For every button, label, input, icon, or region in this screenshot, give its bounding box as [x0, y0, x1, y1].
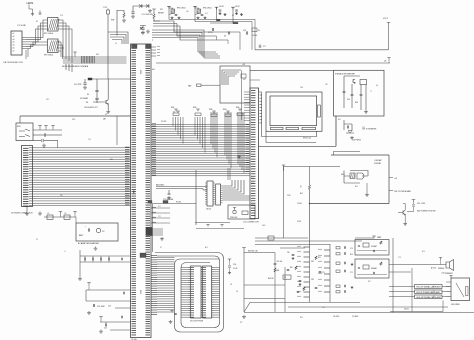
dcdc box top nested corner [334, 152, 361, 156]
svg-text:R51: R51 [318, 257, 321, 259]
wire label left of loop [140, 253, 146, 258]
LCD button bar 2 [286, 127, 299, 129]
svg-text:R30: R30 [355, 102, 358, 104]
cap C20 with label [93, 304, 94, 307]
analog left extra part 1 [287, 269, 290, 270]
analog left part d [297, 291, 300, 292]
loop wires turn right [198, 52, 220, 58]
svg-text:R10: R10 [300, 193, 303, 195]
svg-text:R74: R74 [422, 251, 425, 253]
wires BA lines into U3 [156, 187, 207, 191]
pullup drops group4 [224, 112, 226, 155]
U6 pin columns [201, 267, 203, 269]
vcc tap between fuses [59, 212, 63, 214]
ROM U6 [203, 266, 212, 318]
docking connector CN2 [22, 146, 33, 207]
wire drop from y116 [116, 116, 118, 145]
gate array U1 box [131, 44, 152, 338]
cap C13 ground cluster [168, 190, 170, 193]
docking bus right labels [125, 146, 130, 148]
long rail y307 [288, 306, 448, 308]
svg-text:VBAT: VBAT [377, 236, 381, 239]
svg-text:RP4 10KX4: RP4 10KX4 [203, 8, 211, 10]
codec stub ticks left x309 [304, 246, 310, 248]
nested corner loops in control box [222, 70, 241, 85]
mini header CN4 [146, 228, 152, 236]
IC U4 dip [216, 184, 221, 205]
svg-text:R70: R70 [350, 254, 353, 256]
caps row3 [105, 324, 106, 327]
IC U3 dip [207, 181, 213, 206]
vertical feed to CN3 from rail y70 [241, 70, 243, 120]
transistor Q3 [403, 210, 405, 215]
svg-text:14.318: 14.318 [252, 35, 257, 37]
svg-text:DET: DET [243, 79, 246, 81]
clock components mid [212, 28, 213, 31]
svg-text:R40: R40 [355, 186, 358, 188]
U7 parts [363, 243, 369, 247]
ground C14 [228, 271, 231, 274]
svg-text:F1: F1 [48, 213, 50, 215]
stub ticks U1 right top [152, 30, 153, 40]
inverter box [334, 70, 385, 116]
wire from LEDS [29, 5, 33, 13]
codec stub ticks left x330 [324, 249, 330, 251]
analog row comp 5 [336, 285, 340, 287]
pad component PD1 [197, 84, 202, 86]
FDD connector pins [446, 281, 451, 283]
FDD connector key rect [466, 287, 469, 296]
inverter ground [364, 110, 368, 113]
svg-text:VCC1: VCC1 [383, 18, 388, 20]
svg-text:KB OR MOUSE CON: KB OR MOUSE CON [4, 62, 24, 64]
svg-text:RP3 10KX4: RP3 10KX4 [177, 8, 185, 10]
control box right of U1 [220, 66, 250, 103]
svg-text:C51: C51 [322, 272, 325, 274]
CN2 pin labels [23, 147, 29, 149]
vcc tap mid [282, 165, 286, 167]
svg-text:C23: C23 [108, 306, 111, 308]
svg-text:DOCKING CONNECTOR: DOCKING CONNECTOR [11, 213, 33, 215]
analog row comp 2 [336, 253, 340, 255]
wire drop to docking bus [57, 141, 59, 148]
cap and grounds RP4 [201, 14, 204, 15]
svg-text:GA1: GA1 [132, 190, 135, 195]
pullup drops group5 [237, 112, 239, 164]
vcc ROM [228, 259, 232, 261]
wire y166 long [284, 166, 341, 168]
vcc in led box [233, 208, 236, 210]
svg-text:0.1UF: 0.1UF [233, 268, 237, 270]
svg-text:C73: C73 [398, 257, 401, 259]
svg-text:R72: R72 [368, 281, 371, 283]
Q1 collector to rail [107, 79, 109, 100]
upper rail short cluster4 [210, 22, 233, 24]
vcc taps on switch wires [33, 129, 62, 131]
capacitor C3 above U1 [140, 26, 146, 28]
staircase bus wires from U1 [153, 21, 180, 26]
svg-text:x5: x5 [13, 45, 15, 47]
U1 left pin name column [132, 45, 137, 47]
svg-text:488: 488 [103, 119, 106, 121]
cable bar 1 [415, 285, 443, 289]
wire top zone y248 [280, 247, 305, 249]
svg-text:C56: C56 [322, 307, 325, 309]
ground CN4 [160, 237, 164, 240]
wire under LCD 2 [266, 131, 316, 142]
svg-text:STN LCD: STN LCD [303, 138, 312, 140]
RTC resistor R62 [274, 268, 276, 272]
CN4 stubs [152, 228, 163, 230]
svg-text:AC ADAPTER/CHARGER: AC ADAPTER/CHARGER [78, 242, 100, 245]
svg-text:C8 R9: C8 R9 [235, 6, 240, 8]
bus loop spiral inner [157, 256, 220, 328]
U1 top-left pin label blob [132, 45, 138, 49]
vcc tap power chain [87, 283, 91, 285]
svg-text:R50: R50 [290, 267, 293, 269]
cap on rail y49.8 [259, 46, 262, 47]
small rect in control box [241, 74, 246, 78]
caps at U1 left edge [121, 258, 122, 261]
svg-text:C9: C9 [115, 43, 117, 45]
U1 top-right pin label blob [146, 45, 152, 49]
ROM U5 [191, 266, 202, 318]
bend of staircase to H rail [240, 19, 255, 50]
wires CN1 drop to bus [26, 49, 28, 60]
analog rail y238 [255, 237, 308, 239]
svg-text:C71: C71 [350, 272, 353, 274]
RTC top rail [244, 252, 275, 254]
wires CN1 to RP1 upper [26, 20, 48, 44]
analog left extra part 2 [303, 287, 305, 291]
diode D5 [346, 131, 354, 134]
svg-text:C50: C50 [287, 252, 290, 254]
fuse F1 [47, 215, 53, 219]
svg-text:J2: J2 [433, 286, 435, 288]
svg-text:C41 4.7UF: C41 4.7UF [417, 203, 425, 205]
staircase from U4 to bus [223, 180, 245, 194]
svg-text:10K: 10K [186, 11, 189, 13]
ground mid chain [87, 311, 91, 315]
pullup cluster RP4 [193, 6, 197, 8]
vcc taps below [206, 225, 209, 227]
svg-text:OP1: OP1 [311, 261, 314, 263]
svg-text:R62: R62 [277, 270, 280, 272]
cap and grounds RP3 [175, 14, 178, 15]
transistor Q1 [106, 100, 108, 105]
svg-text:C16: C16 [88, 139, 91, 141]
cap C10 right of staircase [246, 31, 247, 34]
FDD connector diagonal [456, 283, 464, 297]
reset resistor R3 [152, 9, 156, 11]
pullup cluster C6 junction [215, 7, 219, 9]
wires bars to connector [442, 286, 450, 288]
svg-text:X3: X3 [87, 94, 89, 96]
inverter transistor Q2 [353, 79, 355, 83]
ground below LEDS wire [31, 13, 34, 16]
svg-text:SW2: SW2 [72, 119, 75, 121]
LCD side bar [318, 105, 321, 117]
vertical x393 [392, 238, 394, 313]
cap C11 with ground [84, 79, 86, 83]
resistor R10 vertical [309, 167, 311, 186]
RTC vertical right [284, 267, 286, 312]
RTC funnel diagonal [244, 303, 250, 313]
dcdc pin stub 2 [389, 190, 393, 192]
svg-text:RP2 10Kx4: RP2 10Kx4 [44, 55, 53, 57]
svg-text:R5: R5 [36, 21, 38, 23]
vcc tap after F2 [73, 212, 77, 214]
svg-text:LOW BAT: LOW BAT [374, 159, 381, 162]
RTC rail y298.5 [244, 298, 285, 300]
inverter caps [343, 91, 346, 92]
svg-text:LCD PWR B: LCD PWR B [352, 140, 361, 142]
AC adapter box [76, 223, 118, 241]
svg-text:X4: X4 [284, 277, 286, 279]
svg-text:C20 10UF: C20 10UF [97, 306, 105, 308]
bus lines loop to U5 [181, 267, 189, 269]
crystal X3 [95, 90, 98, 91]
svg-text:PU PU: PU PU [161, 121, 167, 123]
resistor pack RP1 [48, 18, 59, 32]
pullup drops group1 [172, 117, 174, 126]
pullup cluster C8 junction [231, 7, 235, 9]
battery circle [96, 228, 100, 232]
svg-text:C24: C24 [104, 328, 107, 330]
wire power rail y217 [44, 216, 76, 218]
svg-text:R31: R31 [338, 119, 341, 121]
U8 parts [363, 265, 369, 269]
svg-text:SPINDLE: SPINDLE [438, 268, 444, 270]
analog rail y241 [255, 240, 362, 242]
vcc tap on bus [73, 52, 77, 54]
RTC rail y285 [244, 284, 285, 286]
wire horizontal y79 [88, 78, 131, 80]
wire long under LCD y146 [259, 145, 337, 147]
wire down to ground [79, 250, 81, 277]
analog rail y244.5 [255, 244, 330, 246]
power led box [228, 205, 255, 219]
svg-text:C1 10UF: C1 10UF [17, 25, 26, 27]
analog left part a [292, 254, 295, 255]
bus U6 to right column [214, 267, 220, 269]
wire LCD leftside vertical [259, 92, 262, 137]
wire J1 down [107, 14, 109, 79]
wire y228.5 [196, 228, 244, 230]
wires below led box y222 [195, 222, 230, 224]
svg-text:10S: 10S [251, 183, 254, 185]
svg-text:R63 1M: R63 1M [268, 278, 274, 280]
RTC cap C61 [274, 263, 277, 264]
ground Q3 [403, 222, 407, 225]
vertical x412 [411, 268, 413, 312]
audio amp box U7 [355, 240, 389, 256]
wire left x152 down [152, 204, 154, 253]
rail y311.5 right [390, 301, 443, 312]
wire vertical to reset cluster [116, 10, 118, 36]
switch wire 3 with cap [33, 140, 41, 142]
speaker SP1 [446, 260, 454, 271]
RTC funnel top rail [250, 302, 292, 304]
wires around comparator [344, 171, 368, 184]
dcdc box right [388, 155, 390, 204]
wire H rail y63 [156, 62, 390, 64]
resnet RN5 top [238, 109, 242, 111]
svg-text:D4: D4 [224, 36, 226, 38]
U1 right stubs y47-56 [151, 46, 156, 48]
upper rail from RP3 [169, 18, 250, 20]
regulator wires [86, 289, 131, 291]
svg-text:C10: C10 [243, 30, 246, 32]
svg-text:VL82: VL82 [139, 290, 141, 294]
resnet RN2 top [196, 109, 200, 111]
LCD button bar 1 [271, 127, 284, 129]
wire horizontal y116 main [20, 115, 131, 117]
vcc cap cluster left of U5 [170, 311, 173, 313]
ground under switch wires [42, 144, 46, 148]
svg-text:SW1: SW1 [17, 126, 21, 128]
analog left part c [299, 280, 302, 281]
Q1 emitter to ground [107, 104, 109, 110]
svg-text:C13 RESUME: C13 RESUME [163, 199, 173, 201]
resnet RN1 top [174, 109, 178, 111]
junction blob cluster4 [233, 22, 238, 23]
bus right name labels [246, 124, 250, 126]
CN2 bottom stub [26, 207, 28, 213]
pullup cluster RP3 [167, 6, 171, 8]
LCD connector CN3 [250, 88, 259, 219]
svg-text:R60 R61 C60: R60 R61 C60 [248, 251, 258, 253]
ground for diodes [148, 9, 152, 13]
RTC ground [242, 315, 246, 319]
svg-text:LCD CONNECTOR: LCD CONNECTOR [243, 222, 259, 224]
resnet RN3 top [212, 111, 216, 113]
svg-text:RESET: RESET [158, 13, 165, 15]
inverter internal wires [344, 76, 366, 110]
ground lcd power [350, 136, 354, 139]
wires RP2 outputs right [58, 42, 64, 59]
bus lines to loop left [157, 257, 175, 259]
nested wires U1 top right loops [153, 30, 204, 58]
comparator U2 shape [357, 173, 364, 179]
svg-text:+12V: +12V [441, 273, 445, 275]
docking bus wires [33, 147, 131, 149]
upper rail from RP4 [195, 21, 245, 23]
bus loop spiral outer [155, 253, 224, 333]
junction blob cluster3 [217, 20, 221, 21]
pullup drops group2 [194, 117, 196, 135]
FDD connector box [451, 278, 470, 301]
svg-text:PIN: PIN [60, 195, 63, 197]
wire y272 [389, 271, 411, 273]
svg-text:REF: REF [141, 33, 144, 35]
svg-text:FDD 4P POWER CABLE ASSY: FDD 4P POWER CABLE ASSY [417, 291, 442, 294]
fuse F2 [64, 215, 70, 219]
mini box at staircase terminus [252, 28, 257, 32]
LCD button bar 3 [302, 127, 316, 129]
vertical x283 down [283, 167, 285, 239]
vcc tap 2 [99, 317, 103, 319]
cap C14 [228, 266, 231, 267]
wire pad to control box [201, 84, 220, 86]
svg-text:HDD 44P SIGNAL CABLE ASSY: HDD 44P SIGNAL CABLE ASSY [417, 296, 442, 299]
bus U1 stubs to loop [151, 255, 157, 257]
U5 pin columns [189, 267, 191, 269]
svg-text:BUS: BUS [96, 54, 99, 56]
wire from rail into AC box [75, 217, 77, 223]
svg-text:J4: J4 [433, 296, 435, 298]
vertical left x196 [195, 170, 197, 225]
svg-text:32.768KHZ: 32.768KHZ [80, 98, 88, 100]
svg-text:PW: PW [111, 20, 114, 22]
wire left edge down to switch box [19, 116, 21, 123]
RTC crystal box [283, 275, 291, 279]
diodes D1 D2 [133, 5, 149, 8]
svg-text:x6: x6 [13, 48, 15, 50]
svg-text:C2 0.1UF/16V: C2 0.1UF/16V [142, 14, 154, 16]
wire y322 [100, 321, 131, 323]
wires CN1 to RP2 lower [26, 42, 48, 49]
RTC vcc top [242, 248, 246, 250]
vertical pair x228 x230 [227, 168, 229, 180]
resnet RN4 top [226, 111, 230, 113]
svg-text:C33: C33 [362, 127, 365, 129]
svg-text:RN1: RN1 [171, 107, 174, 109]
dcdc box bottom [310, 203, 390, 205]
svg-text:T1: T1 [370, 91, 372, 93]
vcc speaker [439, 258, 442, 260]
svg-text:C11 47PF: C11 47PF [74, 84, 81, 86]
svg-text:LEDS: LEDS [27, 1, 34, 5]
wires RP outputs right [58, 20, 72, 63]
svg-text:R4: R4 [86, 102, 88, 104]
cable bar 3 [415, 295, 443, 299]
cap C40 [412, 205, 415, 206]
svg-text:C12: C12 [205, 13, 208, 15]
xtal box small [268, 236, 274, 240]
ground under AC box [94, 247, 98, 251]
svg-text:FDD DRIVE: FDD DRIVE [451, 304, 460, 306]
codec column stubs x330 [329, 244, 331, 302]
svg-text:L1: L1 [64, 251, 66, 253]
svg-text:OE: OE [230, 284, 232, 286]
svg-text:PC2: PC2 [158, 216, 161, 218]
svg-text:CE: CE [236, 291, 238, 293]
svg-text:C17: C17 [263, 46, 266, 48]
audio amp box U8 [355, 259, 389, 278]
analog row comp 3 [336, 262, 340, 264]
pullup drops group3 [210, 112, 212, 144]
zener cluster ZD1 [140, 27, 143, 30]
svg-text:C14: C14 [233, 264, 236, 266]
wire Q3 collector [403, 204, 405, 211]
wires U4 right to CN3 [223, 196, 250, 200]
junction R10 bottom [309, 203, 310, 204]
svg-text:OP2: OP2 [311, 279, 314, 281]
analog mid part b [319, 271, 322, 272]
dcdc box top [331, 154, 389, 156]
wire box top y203.5 [153, 203, 197, 205]
vcc right top [372, 236, 376, 238]
ground ROM left [169, 320, 173, 324]
switch box SW1 [16, 123, 33, 141]
wire Q3 base [398, 213, 405, 223]
LCD outer box [266, 92, 322, 131]
svg-text:R55: R55 [300, 317, 303, 319]
analog row comp 1 [336, 247, 340, 249]
cable bar 2 [415, 290, 443, 294]
svg-text:C6 R8: C6 R8 [219, 6, 224, 8]
